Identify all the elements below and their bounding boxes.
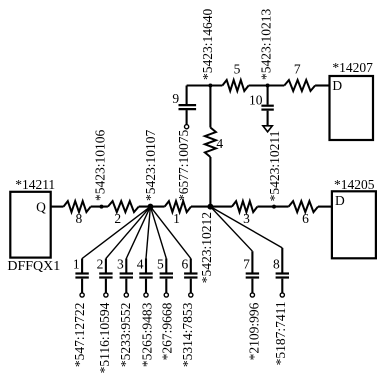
svg-text:*5423:14640: *5423:14640 [200,8,215,80]
svg-text:*5423:10106: *5423:10106 [92,129,107,201]
svg-text:D: D [335,193,345,208]
svg-text:*2109:996: *2109:996 [246,302,261,360]
svg-text:7: 7 [243,256,250,271]
svg-text:*5265:9483: *5265:9483 [139,302,154,367]
svg-text:D: D [332,78,342,93]
svg-text:5: 5 [157,256,164,271]
svg-text:*5314:7853: *5314:7853 [180,302,195,367]
svg-text:8: 8 [273,256,280,271]
svg-text:3: 3 [243,211,250,226]
svg-text:10: 10 [249,93,263,108]
svg-text:*267:9668: *267:9668 [159,302,174,360]
svg-text:*14207: *14207 [332,60,373,75]
svg-text:1: 1 [173,211,180,226]
svg-text:*5423:10213: *5423:10213 [259,8,274,80]
svg-text:6: 6 [182,256,189,271]
svg-text:*6577:10075: *6577:10075 [176,129,191,201]
svg-text:9: 9 [172,91,179,106]
svg-text:2: 2 [114,211,121,226]
svg-text:3: 3 [117,256,124,271]
svg-text:2: 2 [97,256,104,271]
svg-text:8: 8 [76,211,83,226]
svg-text:6: 6 [302,211,309,226]
svg-text:*14205: *14205 [334,177,375,192]
svg-text:7: 7 [294,62,301,77]
svg-text:*5423:10107: *5423:10107 [143,129,158,201]
svg-text:*5423:10212: *5423:10212 [199,212,214,283]
svg-text:1: 1 [73,256,80,271]
svg-text:4: 4 [216,136,223,151]
svg-text:4: 4 [137,256,144,271]
svg-text:Q: Q [36,199,46,214]
svg-text:*5116:10594: *5116:10594 [97,302,112,373]
svg-text:*5423:10211: *5423:10211 [267,131,282,202]
svg-text:*14211: *14211 [15,177,55,192]
svg-text:*5233:9552: *5233:9552 [118,303,133,368]
svg-text:5: 5 [234,62,241,77]
svg-text:*5187:7411: *5187:7411 [273,301,288,365]
svg-text:*547:12722: *547:12722 [72,303,87,368]
svg-text:DFFQX1: DFFQX1 [7,259,60,274]
